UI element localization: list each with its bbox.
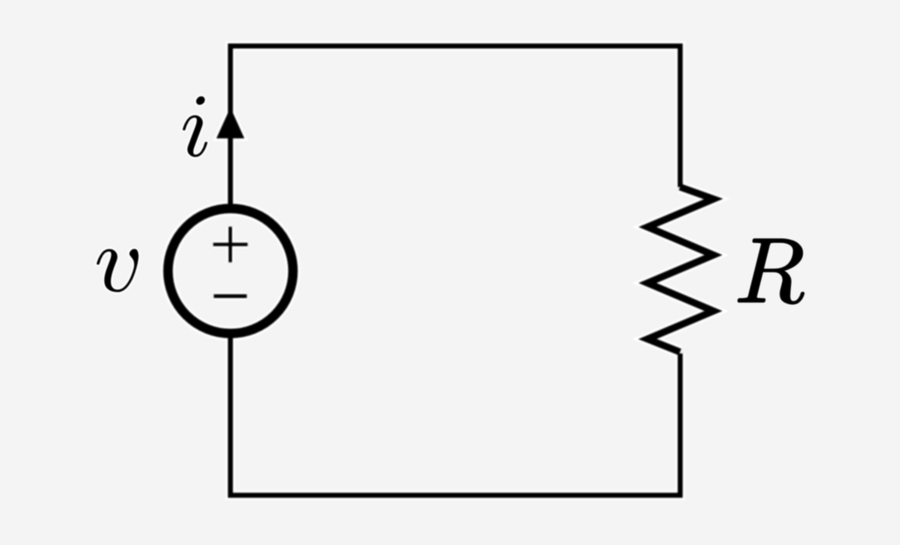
value label R (resistance) — [738, 239, 804, 304]
resistor R (zigzag body) — [648, 187, 714, 352]
value label v (source voltage) — [97, 249, 139, 292]
wire: from resistor bottom down the right side, across the bottom, up to voltage source bottom terminal — [230, 338, 680, 496]
voltage source v (circle body) — [168, 209, 293, 334]
value label i (loop current) — [183, 96, 208, 157]
current direction arrowhead on left wire — [216, 108, 244, 139]
plus polarity mark inside source — [213, 227, 247, 262]
white glow underlay (rendering aid duplicating all ink shapes) — [168, 46, 714, 495]
labels group (crisper) — [97, 96, 804, 304]
minus polarity mark inside source — [214, 294, 247, 298]
wire: from voltage source top terminal up the left side, across the top, down to resistor top — [230, 46, 680, 205]
